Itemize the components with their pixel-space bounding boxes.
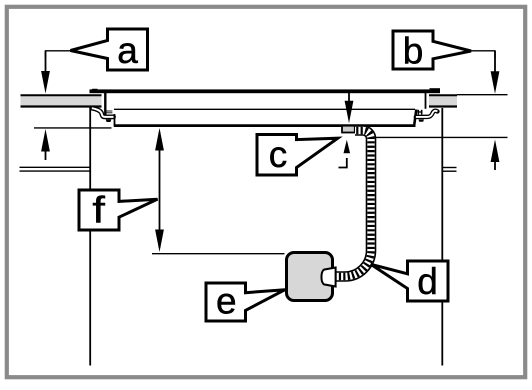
- cabinet side wall left: [89, 107, 91, 366]
- glass left facet: [90, 89, 98, 93]
- hob body right edge: [425, 92, 427, 109]
- label box b: [393, 31, 471, 69]
- hob body right bevel: [414, 110, 416, 125]
- svg-text:d: d: [417, 261, 438, 302]
- left clamp threads: [106, 110, 112, 112]
- label box d: [371, 261, 448, 301]
- dimension a: down arrow: [45, 51, 47, 75]
- label box f: [79, 190, 158, 230]
- svg-text:f: f: [92, 189, 105, 230]
- left shelf panel lines: [20, 166, 92, 168]
- glass right lip: [430, 88, 441, 91]
- svg-text:a: a: [117, 30, 138, 71]
- right clamp spring: [416, 111, 438, 117]
- right shelf stub lines: [442, 167, 456, 169]
- junction housing c (gray): [342, 126, 355, 133]
- worktop surface reference line right: [457, 94, 508, 96]
- hob body left edge: [114, 114, 116, 127]
- dimension c: up arrow with foot: [339, 158, 347, 168]
- label box c: [257, 135, 338, 176]
- label box e: [206, 283, 285, 321]
- reference line left (lower edge of hob): [34, 127, 112, 129]
- dimension b: leader: [471, 51, 496, 58]
- svg-text:c: c: [269, 134, 288, 175]
- dimension b: down arrow: [494, 51, 496, 75]
- svg-text:b: b: [403, 31, 424, 72]
- dimension b: up arrow: [494, 158, 496, 170]
- reference line bottom (min distance): [152, 253, 285, 255]
- label box a: [71, 29, 148, 70]
- svg-text:e: e: [216, 281, 237, 322]
- cabinet side wall right: [441, 108, 443, 366]
- right clamp tab: [418, 119, 424, 121]
- hob body internal line: [114, 108, 415, 110]
- worktop right piece: [429, 96, 457, 105]
- worktop left piece: [21, 96, 102, 105]
- reference line right middle: [376, 136, 508, 138]
- hob body bottom line: [114, 124, 416, 127]
- dimension f: double arrow: [159, 132, 161, 248]
- dimension c: down arrow: [348, 93, 350, 103]
- mains connection hose (corrugated): [334, 131, 371, 277]
- left clamp bolt: [104, 92, 106, 115]
- dimension a: leader: [46, 51, 71, 58]
- glass ceramic hob top: [90, 89, 441, 93]
- right clamp screw: [417, 110, 419, 115]
- left clamp spring: [92, 108, 114, 117]
- hose plug into box: [321, 268, 335, 287]
- left clamp tab: [106, 119, 112, 122]
- dimension a: up arrow: [45, 145, 47, 160]
- mains connection box e (gray): [287, 253, 333, 301]
